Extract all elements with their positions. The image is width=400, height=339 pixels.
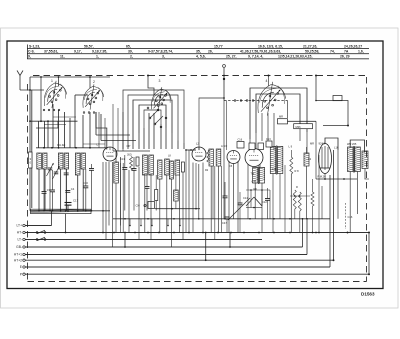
wire stage1 jog2 [36, 121, 58, 128]
component box on lead [333, 96, 342, 101]
wire speaker tail [365, 178, 370, 180]
dial cord pulley [246, 100, 248, 102]
junction mid rail [58, 147, 60, 149]
svg-text:59,25,58,: 59,25,58, [305, 49, 319, 53]
wire output links [350, 140, 365, 233]
wire right top link [315, 76, 349, 127]
label L7 [97, 143, 101, 147]
supply bus line HT- [17, 231, 369, 235]
junction low rail [249, 218, 251, 220]
junction low rail [289, 218, 291, 220]
svg-text:MR: MR [279, 115, 283, 119]
chassis dashed outline [28, 76, 367, 282]
wire V3 top [185, 149, 196, 151]
junction low rail [273, 218, 275, 220]
resistor R1 edge [29, 152, 32, 168]
junction bottom rail [85, 210, 87, 212]
svg-text:9-37,57,8,25,74,: 9-37,57,8,25,74, [148, 49, 173, 53]
transformer T3 primary [270, 147, 275, 174]
wire stage2 hrail [155, 208, 200, 210]
transformer T1 [253, 167, 265, 185]
wire V5 leads [248, 164, 260, 190]
capacitor C11 [132, 157, 137, 211]
wire stage1 hjog [29, 120, 77, 122]
svg-text:41,36,17,58,79,61,26,9,63,: 41,36,17,58,79,61,26,9,63, [240, 49, 281, 53]
svg-text:37,55,61,: 37,55,61, [44, 49, 58, 53]
svg-text:R6: R6 [254, 187, 258, 191]
coil CH2 [174, 175, 179, 209]
wire mid drops [211, 166, 218, 240]
wire stage1 mid rail [36, 147, 107, 149]
coil L3a [75, 153, 80, 175]
junction mid rail [89, 147, 91, 149]
svg-text:C46: C46 [252, 180, 257, 184]
resistor R4 [136, 157, 139, 166]
junction bottom rail [91, 210, 93, 212]
coil IFT4 [175, 160, 180, 175]
junction out [347, 232, 349, 234]
junction on HT- bus [318, 232, 320, 234]
wire det drop [223, 101, 225, 220]
junction bottom rail [38, 210, 40, 212]
wire V1 drop 3 [89, 77, 91, 88]
junction on HT- bus [243, 232, 245, 234]
wire fan4 chassis link [268, 75, 270, 87]
svg-text:15,77: 15,77 [214, 44, 223, 48]
capacitor C1 trimmer [47, 163, 54, 211]
svg-text:26, 29: 26, 29 [340, 55, 350, 59]
junction bottom rail [77, 210, 79, 212]
svg-text:L7: L7 [97, 143, 101, 147]
transformer T3 core [275, 146, 278, 175]
valve V4 [227, 151, 240, 164]
wire nest left b [101, 140, 136, 142]
svg-text:C16: C16 [238, 139, 243, 142]
svg-text:HT+1: HT+1 [14, 253, 22, 257]
label AVF [221, 144, 228, 148]
svg-text:25, 27,: 25, 27, [226, 55, 237, 59]
junction low rail [224, 218, 226, 220]
wire stage4 nest outer [250, 88, 307, 139]
wire V2 anode [96, 112, 107, 150]
wire jog C [229, 233, 231, 248]
wire diagonal b [254, 197, 262, 206]
supply bus line HT+1 [14, 253, 307, 257]
wire LT+ riser [51, 211, 53, 226]
capacitor C10 [120, 155, 127, 211]
table rule line 1 [27, 48, 369, 50]
meter box M36 [294, 124, 313, 129]
svg-text:R 8: R 8 [295, 169, 300, 173]
zigzag resistor R4b [130, 157, 133, 171]
svg-text:CP: CP [127, 144, 131, 148]
tuning fan 4 [258, 82, 286, 116]
coil L5a [209, 149, 213, 166]
label small3 [205, 169, 209, 172]
rectifier MR box [278, 115, 288, 124]
capacitor C5 [42, 169, 51, 211]
label C46b [252, 180, 257, 184]
junction on HT- bus [347, 232, 349, 234]
junction bottom rail [60, 210, 62, 212]
svg-text:7A: 7A [344, 49, 349, 53]
wire GB- riser [302, 219, 304, 247]
wire nest left a [96, 134, 130, 136]
junction on HT- bus [158, 232, 160, 234]
transformer T3 secondary [277, 147, 282, 174]
wire right rail mid [290, 195, 310, 197]
dial cord pulley [240, 100, 242, 102]
junction on HT- bus [65, 232, 67, 234]
svg-text:L11: L11 [272, 168, 277, 171]
junction on HT- bus [134, 232, 136, 234]
svg-text:21,27,26,: 21,27,26, [303, 44, 317, 48]
wire diagonal a [228, 198, 250, 220]
junction low rail [302, 218, 304, 220]
svg-text:9, 7,14, 4,: 9, 7,14, 4, [248, 55, 263, 59]
svg-text:C4: C4 [71, 187, 75, 191]
transformer T2 primary [348, 147, 354, 172]
label C16b [238, 138, 272, 142]
svg-text:Tor: Tor [251, 172, 255, 176]
svg-text:65,: 65, [126, 44, 131, 48]
wire stage4 nest inner [256, 94, 300, 133]
svg-text:C13: C13 [266, 138, 271, 141]
label stage 1 [51, 79, 53, 83]
svg-text:1: 1 [51, 79, 53, 83]
coil L3b [81, 153, 85, 169]
wire V2 heater quad [103, 162, 113, 247]
capacitor C4 [89, 164, 94, 211]
supply bus line GB- [16, 245, 302, 249]
label stage 3 [159, 79, 161, 83]
wire L2 top link [199, 97, 225, 150]
junction on HT- bus [230, 232, 232, 234]
svg-text:LT+: LT+ [16, 224, 22, 228]
svg-text:11,: 11, [60, 55, 65, 59]
wire MR link [288, 120, 317, 122]
wire stage1 jog4 [44, 124, 66, 126]
switch blade a [149, 109, 159, 119]
wire stage1 jog3 [53, 116, 76, 118]
junction on HT- bus [289, 232, 291, 234]
wire stage1 left pair [30, 77, 32, 211]
wire nest left c [96, 112, 101, 141]
svg-text:74,: 74, [330, 49, 335, 53]
label L16 [334, 146, 339, 150]
zigzag resistor R8 [290, 150, 293, 233]
capacitor C7 [65, 187, 74, 192]
wire circuit low rail [113, 218, 330, 220]
transformer T2 secondary [355, 147, 361, 172]
junction on HT- bus [273, 232, 275, 234]
svg-text:16.6, 12/3, 6.15,: 16.6, 12/3, 6.15, [258, 44, 283, 48]
junction bottom rail [65, 210, 67, 212]
svg-text:4: 4 [266, 79, 268, 83]
capacitor C48 [238, 192, 243, 233]
aerial Y symbol [17, 71, 23, 91]
capacitor C2 trimmer [53, 166, 60, 179]
zigzag resistor R9 [293, 190, 296, 219]
svg-text:56,57,: 56,57, [84, 44, 94, 48]
junction bottom rail [43, 210, 45, 212]
svg-text:4, 5,6,: 4, 5,6, [196, 55, 206, 59]
supply bus line LT+ [16, 224, 51, 228]
coil IFT1 pri [143, 155, 148, 175]
junction low rail [147, 218, 149, 220]
label ohms [57, 143, 66, 147]
wire rheostat tap [65, 214, 67, 233]
tuning fan 2 [83, 84, 104, 109]
junction bottom rail [49, 210, 51, 212]
junction low rail [198, 218, 200, 220]
wire connector pair [226, 101, 228, 151]
junction top rail [58, 76, 60, 78]
svg-text:9Ω 4Ω: 9Ω 4Ω [57, 143, 66, 147]
label L2 [196, 142, 200, 146]
battery switch S1 blade [36, 230, 46, 233]
label 30 vertical [30, 157, 32, 165]
wire nest link top [147, 75, 154, 96]
svg-text:12/5,14,21,26,63,4,15,: 12/5,14,21,26,63,4,15, [278, 55, 312, 59]
wire under L5 [213, 166, 222, 233]
wire nest drops [123, 113, 184, 149]
wire stage1 jog5 [83, 143, 105, 145]
svg-text:C14: C14 [243, 196, 248, 200]
junction on HT- bus [102, 232, 104, 234]
table text row 1 [29, 44, 362, 48]
wire stage1 verts [39, 95, 91, 148]
capacitor C8 big [65, 199, 79, 211]
coil L2b [64, 153, 68, 169]
capacitor C14 bot [222, 217, 230, 233]
wire dial cord [224, 100, 288, 102]
svg-text:9,17,: 9,17, [74, 49, 82, 53]
wire mid horiz b [246, 207, 262, 209]
supply bus line HT+2 [14, 258, 334, 262]
label small4 [229, 165, 233, 168]
wire V1 drop 2 [58, 77, 60, 86]
junction on HT- bus [188, 232, 190, 234]
junction bottom rail [102, 210, 104, 212]
label MR [310, 142, 314, 146]
coil IFT1 sec [149, 155, 154, 175]
junction mid rail [75, 147, 77, 149]
wire stub row [130, 219, 180, 226]
wire x338 drop [337, 150, 339, 219]
svg-text:HT-: HT- [17, 231, 22, 235]
table rule line 2 [27, 53, 369, 55]
wire stage1 top rail [30, 76, 110, 78]
svg-text:1,: 1, [96, 55, 99, 59]
supply bus line E [20, 265, 330, 269]
label PM24 [318, 175, 327, 179]
capacitor C15 [262, 188, 270, 219]
junction mid rail [43, 147, 45, 149]
wire jog B [205, 232, 207, 262]
resistor R5 [181, 162, 184, 172]
battery switch S2 blade [36, 237, 46, 240]
wire aerial entry [20, 89, 44, 91]
junction on HT- bus [147, 232, 149, 234]
svg-text:GB-: GB- [16, 245, 22, 249]
coil L2a [58, 153, 63, 169]
wire nest outer [128, 95, 178, 141]
table left tick [27, 45, 29, 59]
label 924A [319, 141, 326, 145]
wire right verticals [316, 121, 322, 232]
wire V3 extra leads [186, 150, 196, 233]
switch contact extra [147, 107, 167, 128]
svg-text:C47: C47 [222, 221, 227, 225]
svg-text:R: R [296, 185, 298, 189]
coil IFT2 sec [165, 159, 170, 175]
coil L5b [216, 149, 221, 166]
table rule line 3 [27, 58, 369, 60]
wire stage1 bottom rail [30, 210, 110, 212]
svg-text:M36: M36 [296, 125, 302, 129]
wire P end riser [368, 232, 370, 276]
fan contact row 2 [83, 112, 95, 114]
coil L1a [37, 153, 42, 169]
wire fan link [75, 94, 88, 96]
label C14 [243, 196, 248, 200]
capacitor C13 [223, 182, 228, 219]
resistor R6 [155, 175, 158, 211]
valve V3 [192, 147, 206, 161]
svg-text:L 9: L 9 [289, 145, 293, 149]
junction on HT- bus [217, 232, 219, 234]
junction bottom rail [52, 210, 54, 212]
svg-text:C13: C13 [120, 157, 125, 161]
coil L1b [43, 153, 47, 169]
svg-text:LT-: LT- [17, 238, 22, 242]
label small6 [308, 158, 312, 161]
svg-text:C-9,: C-9, [28, 49, 35, 53]
junction on HT- bus [173, 232, 175, 234]
supply bus line P [20, 272, 369, 276]
wire T3 leads [273, 174, 280, 233]
capacitor C9b [83, 169, 88, 211]
coil IFT2 pri [158, 160, 162, 179]
wire coil leads s1 [39, 169, 83, 211]
tuning fan 1 [44, 81, 66, 108]
rheostat R2 [31, 209, 92, 213]
wire nest left verts [113, 104, 123, 151]
svg-text:35,: 35, [196, 49, 201, 53]
switch blade b [154, 116, 163, 125]
label L9 [289, 145, 293, 149]
label R6b [254, 187, 258, 191]
label WR265 [347, 142, 357, 146]
svg-text:30Ω: 30Ω [127, 154, 132, 157]
coil L10 [304, 147, 309, 219]
wire V7 anode [325, 138, 338, 150]
junction low rail [173, 218, 175, 220]
svg-text:HT+2: HT+2 [14, 258, 22, 262]
svg-text:2,: 2, [130, 55, 133, 59]
zigzag resistor R13 [207, 150, 209, 162]
label D1563 [361, 292, 375, 297]
svg-text:39,: 39, [128, 49, 133, 53]
wire T1 leads [255, 183, 262, 233]
zigzag resistor R12 [311, 179, 314, 233]
junction bottom rail [67, 210, 69, 212]
fan contact row 1 [43, 109, 60, 111]
svg-text:MR: MR [310, 142, 314, 146]
coil IFT3 [169, 161, 173, 179]
wire HT+2 riser [333, 150, 335, 261]
label small2 [168, 155, 171, 158]
svg-text:1,6,: 1,6, [358, 49, 364, 53]
wire stage1 extra verts [99, 112, 105, 148]
dial cord pulley [252, 100, 254, 102]
table text row 3 [28, 55, 350, 59]
label CP [127, 144, 131, 148]
table text row 2 [28, 49, 364, 53]
junction low rail [306, 218, 308, 220]
supply bus line LT- [17, 238, 262, 242]
junction on HT- bus [312, 232, 314, 234]
wire mid verts [248, 165, 285, 233]
wire nest inner [139, 105, 166, 133]
svg-text:C12: C12 [262, 200, 267, 204]
svg-text:3: 3 [159, 79, 161, 83]
wire mid horiz a [246, 189, 270, 191]
junction mid rail [51, 147, 53, 149]
junction top rail [40, 76, 42, 78]
tuning fan 3 [151, 87, 171, 111]
wire V4 leads [229, 161, 238, 233]
wire stage2 entry rail [113, 150, 150, 152]
valve V7 output [319, 144, 332, 174]
label small5 [272, 168, 277, 171]
mechanical link dashed [346, 203, 353, 229]
junction on HT- bus [113, 232, 115, 234]
wire nest small comps [237, 141, 272, 150]
junction low rail [124, 218, 126, 220]
wire nest mid [133, 100, 172, 141]
junction on HT- bus [202, 232, 204, 234]
label stage 4 [266, 79, 268, 83]
wire HT+1 riser [306, 219, 308, 255]
junction stub [129, 225, 181, 227]
svg-text:C46: C46 [348, 215, 353, 219]
junction on HT- bus [315, 232, 317, 234]
zigzag resistor R10 [298, 192, 301, 233]
capacitor C6 [50, 170, 55, 211]
wire stage2 bus drops [120, 150, 203, 247]
svg-text:3,: 3, [162, 55, 165, 59]
svg-text:9,: 9, [28, 55, 31, 59]
svg-text:26,: 26, [208, 49, 213, 53]
junction chassis tap [315, 75, 317, 77]
svg-text:S-1,23,: S-1,23, [29, 44, 40, 48]
choke CH [136, 202, 155, 209]
wire V1 drop 1 [40, 77, 42, 121]
svg-text:24,26,26,27: 24,26,26,27 [344, 44, 362, 48]
junction top rail [89, 76, 91, 78]
label R11 [296, 185, 298, 189]
junction on HT- bus [258, 232, 260, 234]
drawing border frame [7, 41, 383, 289]
label small1 [127, 154, 132, 157]
resistor R3 winding [114, 151, 119, 233]
label R8 [295, 169, 300, 173]
wire det connector [223, 65, 226, 101]
wire output rail [316, 178, 357, 180]
transformer T2 core [353, 146, 356, 173]
